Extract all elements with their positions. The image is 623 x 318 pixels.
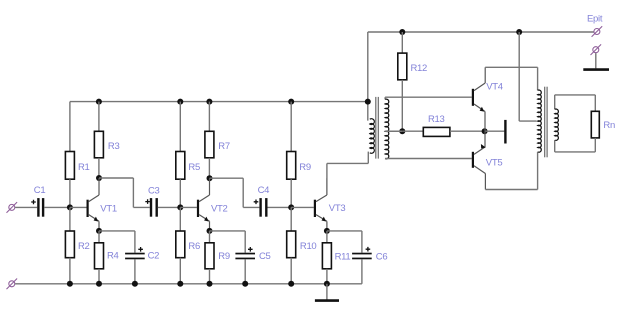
label Epit xyxy=(587,14,603,25)
wire C3 to node B xyxy=(158,206,180,208)
wire T2 secondary top to Rn xyxy=(555,95,596,111)
transformer T2 secondary winding xyxy=(555,95,559,152)
svg-text:C6: C6 xyxy=(376,251,388,262)
wire R6 to bottom rail xyxy=(179,258,181,284)
terminal E2 xyxy=(591,44,602,55)
svg-text:R5: R5 xyxy=(188,162,200,173)
junction R2 bottom xyxy=(67,281,73,287)
wire top rail down to T1 xyxy=(367,32,369,121)
wire R3 to collector node xyxy=(98,158,100,178)
node C xyxy=(288,204,294,210)
label Rn xyxy=(603,120,615,131)
ground (emitters) xyxy=(485,120,506,144)
wire down to C3 xyxy=(132,178,134,207)
junction R5 top xyxy=(177,99,183,105)
junction R9b top xyxy=(288,99,294,105)
label R3 xyxy=(108,141,120,152)
wire down to C4 xyxy=(242,178,244,207)
top supply rail wire xyxy=(368,31,594,33)
wire emitter to R11 xyxy=(326,231,328,243)
svg-text:VT5: VT5 xyxy=(486,157,503,168)
svg-text:R4: R4 xyxy=(107,250,119,261)
wire T2 center tap xyxy=(519,120,536,122)
resistor R11 xyxy=(322,243,331,269)
transformer T2 core xyxy=(545,87,547,158)
svg-text:Rn: Rn xyxy=(603,120,615,131)
wire rail to R3 xyxy=(98,102,100,132)
node A xyxy=(67,204,73,210)
transformer T1 core xyxy=(376,97,379,159)
supply rail wire xyxy=(70,101,368,103)
resistor R3 xyxy=(94,131,103,158)
capacitor C3 xyxy=(145,198,158,217)
svg-text:VT4: VT4 xyxy=(486,82,503,93)
svg-text:R9: R9 xyxy=(299,162,311,173)
svg-text:C4: C4 xyxy=(258,185,270,196)
wire down to C5 xyxy=(244,231,246,253)
wire R1 to node A xyxy=(69,179,71,207)
wire to C4 xyxy=(243,206,259,208)
svg-text:R11: R11 xyxy=(335,251,351,262)
resistor R10 xyxy=(287,231,296,258)
label R11 xyxy=(335,251,351,262)
input terminal IN1 xyxy=(7,202,18,213)
junction C2 bottom xyxy=(132,281,138,287)
svg-text:C1: C1 xyxy=(34,185,46,196)
svg-text:Epit: Epit xyxy=(587,14,603,25)
junction R6 bottom xyxy=(177,281,183,287)
wire R10 to bottom rail xyxy=(290,258,292,284)
label C5 xyxy=(259,251,271,262)
wire VT5 collector right xyxy=(485,189,537,191)
wire R4 to bottom rail xyxy=(98,269,100,284)
ground (bottom) xyxy=(315,284,339,301)
transformer T1 primary winding xyxy=(370,119,375,154)
junction R3 top xyxy=(96,99,102,105)
svg-text:C3: C3 xyxy=(148,186,160,197)
junction R9a bottom xyxy=(207,281,213,287)
wire VT4 collector right xyxy=(485,66,537,68)
wire rail to R5 xyxy=(179,102,181,152)
svg-text:C2: C2 xyxy=(148,250,160,261)
capacitor C2 xyxy=(125,247,145,259)
node emitter VT2 xyxy=(207,228,213,234)
wire node C to R10 xyxy=(290,207,292,231)
wire to T1 primary bottom xyxy=(367,152,369,164)
label R7 xyxy=(218,141,230,152)
wire R2 to bottom rail xyxy=(69,258,71,284)
label VT2 xyxy=(211,203,228,214)
input terminal IN2 xyxy=(7,279,18,290)
svg-text:R9: R9 xyxy=(218,251,230,262)
svg-text:R7: R7 xyxy=(218,141,230,152)
resistor R13 xyxy=(423,127,450,136)
wire base VT1 xyxy=(70,206,87,208)
label R1 xyxy=(78,162,90,173)
junction R7 top xyxy=(206,99,212,105)
junction T1 primary top xyxy=(365,99,371,105)
label R6 xyxy=(188,241,200,252)
junction R4 bottom xyxy=(96,281,102,287)
label C2 xyxy=(148,250,160,261)
wire R9a to bottom rail xyxy=(209,269,211,284)
svg-text:VT1: VT1 xyxy=(100,203,117,214)
wire R12 to center tap xyxy=(401,80,403,131)
wire base VT3 xyxy=(291,206,314,208)
capacitor C6 xyxy=(352,247,372,259)
resistor R9 (stage 2) xyxy=(205,243,214,269)
svg-text:R12: R12 xyxy=(411,63,428,74)
node emitter VT1 xyxy=(96,228,102,234)
wire rail to R7 xyxy=(208,102,210,132)
node emitter VT3 xyxy=(324,228,330,234)
resistor R5 xyxy=(176,152,185,180)
label R2 xyxy=(78,241,90,252)
wire C2 to bottom rail xyxy=(134,259,136,284)
resistor R7 xyxy=(205,131,214,158)
label R13 xyxy=(428,114,445,125)
wire C6 to bottom rail xyxy=(361,259,363,284)
transformer T1 secondary winding xyxy=(385,97,389,159)
wire down to C6 xyxy=(361,231,363,253)
label R12 xyxy=(411,63,428,74)
resistor R1 xyxy=(65,152,74,180)
node collector VT2 xyxy=(207,175,213,181)
label C1 xyxy=(34,185,46,196)
wire emitter to C2 xyxy=(99,230,135,232)
transistor VT5 xyxy=(472,131,486,189)
wire R9b to node C xyxy=(290,179,292,207)
wire emitter to R4 xyxy=(98,231,100,243)
label R10 xyxy=(300,241,317,252)
resistor R2 xyxy=(65,231,74,258)
wire Rn to T2 secondary bottom xyxy=(555,138,596,152)
label C3 xyxy=(148,186,160,197)
label C4 xyxy=(258,185,270,196)
wire down to C2 xyxy=(134,231,136,253)
resistor R4 xyxy=(95,243,104,269)
junction C5 bottom xyxy=(242,281,248,287)
svg-text:R3: R3 xyxy=(108,141,120,152)
wire collector VT3 up xyxy=(326,163,328,194)
node emitters VT4 VT5 xyxy=(482,128,488,134)
junction R11 bottom xyxy=(324,281,330,287)
wire T1 secondary top to VT4 base xyxy=(385,96,472,98)
svg-text:R13: R13 xyxy=(428,114,445,125)
svg-text:R10: R10 xyxy=(300,241,317,252)
label C6 xyxy=(376,251,388,262)
wire top rail to T2 tap xyxy=(518,32,520,121)
node B xyxy=(177,204,183,210)
label R9 (stage 2) xyxy=(218,251,230,262)
bottom rail wire xyxy=(15,283,362,285)
label VT4 xyxy=(486,82,503,93)
wire base VT2 xyxy=(180,206,197,208)
wire emitter to R9a xyxy=(209,231,211,243)
label R5 xyxy=(188,162,200,173)
capacitor C1 xyxy=(31,198,44,217)
capacitor C4 xyxy=(254,198,268,217)
wire rail to R1 xyxy=(69,102,71,152)
label VT3 xyxy=(329,203,346,214)
wire to C3 xyxy=(133,206,149,208)
resistor Rn xyxy=(591,111,599,138)
label R4 xyxy=(107,250,119,261)
label R9 (stage 3) xyxy=(299,162,311,173)
wire emitter to C5 xyxy=(210,230,246,232)
svg-text:VT3: VT3 xyxy=(329,203,346,214)
wire collector VT3 right xyxy=(327,162,368,164)
transistor VT1 xyxy=(87,178,100,231)
node collector VT1 xyxy=(96,175,102,181)
transistor VT3 xyxy=(314,178,327,231)
svg-text:C5: C5 xyxy=(259,251,271,262)
wire collector VT2 right xyxy=(210,177,244,179)
label VT5 xyxy=(486,157,503,168)
resistor R6 xyxy=(176,231,185,258)
junction R12 top xyxy=(399,29,405,35)
junction T2 tap top xyxy=(516,29,522,35)
wire collector VT1 right xyxy=(99,177,133,179)
wire R11 to bottom rail xyxy=(326,269,328,284)
wire T1 secondary bottom to VT5 base xyxy=(385,158,472,160)
ground (top right) xyxy=(583,53,609,70)
wire C1 to node A xyxy=(44,206,70,208)
wire node A to R2 xyxy=(69,207,71,231)
capacitor C5 xyxy=(235,247,255,259)
svg-text:R1: R1 xyxy=(78,162,90,173)
wire node B to R6 xyxy=(179,207,181,231)
transistor VT2 xyxy=(197,178,210,231)
terminal Epit xyxy=(592,26,603,37)
junction R10 bottom xyxy=(288,281,294,287)
wire T1 center tap xyxy=(385,130,402,132)
transformer T2 primary winding xyxy=(538,67,542,189)
svg-text:R6: R6 xyxy=(188,241,200,252)
wire rail to R9b xyxy=(290,102,292,152)
svg-text:R2: R2 xyxy=(78,241,90,252)
node T1 center tap xyxy=(399,128,405,134)
transistor VT4 xyxy=(472,67,485,131)
wire R13 to emitter node xyxy=(450,130,485,132)
wire R12 top xyxy=(401,32,403,53)
resistor R9 (stage 3) xyxy=(287,152,296,180)
wire input to C1 xyxy=(15,206,37,208)
wire C5 to bottom rail xyxy=(244,259,246,284)
wire R5 to node B xyxy=(179,179,181,207)
wire center tap to R13 xyxy=(402,130,423,132)
resistor R12 xyxy=(398,53,407,80)
svg-text:VT2: VT2 xyxy=(211,203,228,214)
wire R7 to collector node xyxy=(208,158,210,178)
wire emitter to C6 xyxy=(327,230,362,232)
wire C4 to node C xyxy=(268,206,292,208)
label VT1 xyxy=(100,203,117,214)
